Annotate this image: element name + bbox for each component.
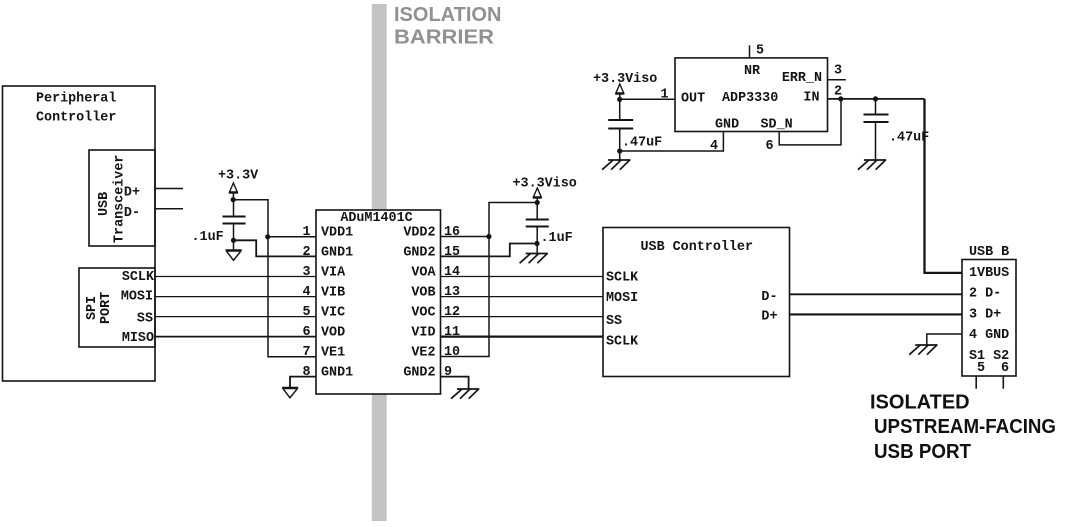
svg-text:+3.3Viso: +3.3Viso bbox=[593, 72, 657, 87]
svg-text:VE1: VE1 bbox=[321, 346, 345, 361]
svg-text:+3.3Viso: +3.3Viso bbox=[513, 177, 577, 192]
svg-text:16: 16 bbox=[444, 225, 460, 240]
svg-text:1: 1 bbox=[660, 87, 668, 102]
svg-text:8: 8 bbox=[302, 365, 310, 380]
svg-text:VIC: VIC bbox=[321, 306, 345, 321]
svg-text:VOA: VOA bbox=[411, 266, 436, 281]
svg-text:3 D+: 3 D+ bbox=[969, 308, 1001, 323]
svg-text:15: 15 bbox=[444, 245, 460, 260]
svg-text:MISO: MISO bbox=[122, 331, 154, 346]
svg-text:USB B: USB B bbox=[969, 245, 1009, 260]
svg-text:SCLK: SCLK bbox=[606, 271, 639, 286]
svg-text:GND2: GND2 bbox=[403, 246, 435, 261]
svg-text:MOSI: MOSI bbox=[606, 291, 638, 306]
svg-text:ERR_N: ERR_N bbox=[782, 71, 822, 86]
svg-text:VID: VID bbox=[411, 326, 435, 341]
svg-text:4: 4 bbox=[710, 139, 718, 154]
svg-text:SCLK: SCLK bbox=[122, 270, 155, 285]
svg-text:SPI: SPI bbox=[85, 296, 100, 320]
svg-text:VE2: VE2 bbox=[411, 346, 435, 361]
svg-text:6: 6 bbox=[302, 325, 310, 340]
svg-text:ADuM1401C: ADuM1401C bbox=[340, 211, 412, 226]
svg-text:5: 5 bbox=[302, 305, 310, 320]
svg-text:12: 12 bbox=[444, 305, 460, 320]
svg-text:UPSTREAM-FACING: UPSTREAM-FACING bbox=[874, 416, 1056, 438]
svg-text:5: 5 bbox=[977, 361, 985, 376]
svg-text:USB: USB bbox=[97, 192, 112, 216]
svg-text:7: 7 bbox=[302, 345, 310, 360]
svg-text:USB PORT: USB PORT bbox=[874, 441, 971, 463]
svg-text:13: 13 bbox=[444, 285, 460, 300]
svg-text:5: 5 bbox=[756, 44, 764, 59]
svg-text:SD_N: SD_N bbox=[761, 117, 793, 132]
svg-text:D-: D- bbox=[761, 290, 777, 305]
svg-text:OUT: OUT bbox=[681, 91, 705, 106]
svg-text:4: 4 bbox=[302, 285, 310, 300]
svg-text:BARRIER: BARRIER bbox=[394, 27, 495, 49]
svg-text:ISOLATION: ISOLATION bbox=[394, 4, 501, 26]
svg-text:2: 2 bbox=[302, 245, 310, 260]
svg-text:2 D-: 2 D- bbox=[969, 286, 1001, 301]
svg-text:VIB: VIB bbox=[321, 286, 345, 301]
svg-text:9: 9 bbox=[444, 365, 452, 380]
svg-text:GND1: GND1 bbox=[321, 246, 353, 261]
svg-text:VIA: VIA bbox=[321, 266, 346, 281]
svg-text:3: 3 bbox=[302, 265, 310, 280]
svg-text:6: 6 bbox=[1001, 361, 1009, 376]
svg-text:1: 1 bbox=[302, 225, 310, 240]
svg-text:D+: D+ bbox=[124, 186, 140, 201]
svg-text:VOB: VOB bbox=[411, 286, 435, 301]
svg-text:GND1: GND1 bbox=[321, 366, 353, 381]
svg-text:ISOLATED: ISOLATED bbox=[870, 392, 970, 414]
svg-text:ADP3330: ADP3330 bbox=[722, 91, 778, 106]
svg-text:D-: D- bbox=[124, 206, 140, 221]
svg-text:GND2: GND2 bbox=[403, 366, 435, 381]
svg-text:SS: SS bbox=[137, 312, 153, 327]
svg-text:3: 3 bbox=[834, 63, 842, 78]
svg-text:6: 6 bbox=[766, 139, 774, 154]
svg-text:VDD1: VDD1 bbox=[321, 226, 353, 241]
svg-text:14: 14 bbox=[444, 265, 460, 280]
svg-text:D+: D+ bbox=[761, 310, 777, 325]
svg-text:VDD2: VDD2 bbox=[403, 226, 435, 241]
svg-text:11: 11 bbox=[444, 325, 460, 340]
svg-text:PORT: PORT bbox=[99, 292, 114, 324]
svg-text:.47uF: .47uF bbox=[889, 131, 929, 146]
svg-text:4 GND: 4 GND bbox=[969, 328, 1009, 343]
svg-text:USB Controller: USB Controller bbox=[641, 240, 754, 255]
svg-text:Controller: Controller bbox=[36, 111, 116, 126]
svg-text:.1uF: .1uF bbox=[541, 231, 573, 246]
svg-text:+3.3V: +3.3V bbox=[218, 169, 259, 184]
svg-text:VOD: VOD bbox=[321, 326, 345, 341]
svg-text:1VBUS: 1VBUS bbox=[969, 266, 1009, 281]
svg-text:.1uF: .1uF bbox=[192, 230, 224, 245]
svg-text:NR: NR bbox=[744, 64, 761, 79]
svg-text:.47uF: .47uF bbox=[622, 136, 662, 151]
svg-text:SS: SS bbox=[606, 314, 622, 329]
svg-text:10: 10 bbox=[444, 345, 460, 360]
svg-text:VOC: VOC bbox=[411, 306, 435, 321]
svg-text:Peripheral: Peripheral bbox=[36, 92, 116, 107]
svg-text:IN: IN bbox=[803, 91, 819, 106]
svg-text:2: 2 bbox=[834, 84, 842, 99]
svg-text:GND: GND bbox=[715, 117, 739, 132]
svg-text:SCLK: SCLK bbox=[606, 334, 639, 349]
svg-text:MOSI: MOSI bbox=[121, 290, 153, 305]
